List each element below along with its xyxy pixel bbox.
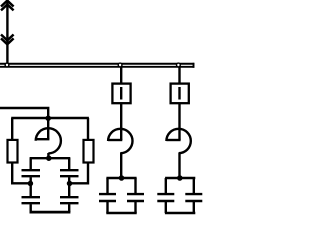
- wire ladder left bottom stub: [30, 204, 32, 212]
- wire right leg down: [87, 118, 89, 139]
- arrowhead down chevron 1: [1, 35, 14, 41]
- wire filter loop top B: [11, 117, 89, 119]
- wire ladder right lower stub: [68, 183, 70, 196]
- wire fuse F1 to breaker: [120, 104, 122, 140]
- wire bank1 right stub: [134, 178, 136, 193]
- wire ladder right upper stub: [68, 158, 70, 169]
- capacitor C5 plates (lower left): [22, 196, 41, 198]
- wire R2 bottom leg: [69, 163, 88, 184]
- resistor R2: [84, 140, 94, 163]
- capacitor bank CB-bank1 top rail: [106, 177, 136, 179]
- wire left leg down: [11, 118, 13, 139]
- capacitor C2b plates: [185, 193, 202, 195]
- capacitor C6 plates (lower right): [60, 196, 79, 198]
- wire bank2 left stub: [165, 178, 167, 193]
- capacitor C1a plates: [99, 193, 116, 195]
- capacitor bank2 bottom rail: [165, 212, 195, 215]
- wire bank1 left stub: [106, 178, 108, 193]
- capacitor bank CB-bank2 top rail: [165, 177, 195, 179]
- wire ladder right mid stub: [68, 177, 70, 183]
- fuse F1: [112, 84, 130, 104]
- breaker CB2 (circle-curl symbol): [166, 139, 180, 141]
- wire incoming source line: [6, 0, 8, 64]
- breaker CB1 (circle-curl symbol): [108, 139, 122, 141]
- wire fuse F2 to breaker: [178, 104, 180, 140]
- capacitor C3 plates (upper left): [22, 169, 41, 171]
- wire ladder left mid stub: [30, 177, 32, 183]
- capacitor C4 plates (upper right): [60, 169, 79, 171]
- capacitor bank1 bottom rail: [106, 212, 136, 215]
- wire ladder right bottom stub: [68, 204, 70, 212]
- node junction dot bank-1: [119, 175, 125, 181]
- wire feeder-1 drop: [120, 67, 122, 83]
- wire breaker CB1 to capacitor bank: [120, 153, 122, 178]
- wire breaker CB2 to capacitor bank: [178, 153, 180, 178]
- wire R1 bottom leg: [12, 163, 31, 184]
- resistor R1: [8, 140, 18, 163]
- capacitor C1b plates: [127, 193, 144, 195]
- capacitor C2a plates: [157, 193, 174, 195]
- wire breaker CB3 tail: [47, 153, 49, 158]
- arrowhead up chevron 1: [1, 1, 14, 7]
- node junction dot ladder mid-left: [28, 181, 34, 187]
- ladder top rail: [30, 157, 71, 159]
- node junction dot ladder mid-right: [67, 181, 73, 187]
- fuse F2: [171, 84, 189, 104]
- node junction dot filter top: [45, 115, 51, 121]
- wire bank1 lower stubs: [106, 202, 108, 213]
- wire ladder left lower stub: [30, 183, 32, 196]
- wire bank2 lower stubs: [165, 202, 167, 213]
- wire filter feed A: [0, 108, 48, 118]
- node terminal circle feeder-2 tap: [177, 63, 181, 67]
- arrowhead down chevron 2: [1, 38, 14, 44]
- wire feeder-2 drop: [178, 67, 180, 83]
- node terminal circle left tap: [5, 63, 9, 67]
- arrowhead up chevron 2: [1, 5, 14, 11]
- breaker CB3 (circle-curl symbol): [36, 138, 50, 140]
- busbar B1: [0, 63, 194, 65]
- ladder bottom rail: [30, 211, 71, 214]
- wire bank2 right stub: [193, 178, 195, 193]
- wire filter breaker feed: [47, 118, 49, 139]
- node junction dot ladder top: [46, 155, 52, 161]
- node terminal circle feeder-1 tap: [118, 63, 122, 67]
- wire ladder left upper stub: [30, 158, 32, 169]
- node junction dot bank-2: [177, 175, 183, 181]
